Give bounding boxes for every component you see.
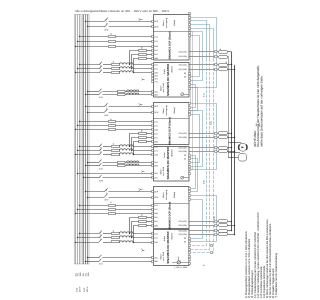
svg-text:3.3): 3.3) <box>203 180 206 184</box>
svg-text:1W1: 1W1 <box>154 45 158 48</box>
field contactor pair3 <box>99 255 101 262</box>
field fuses pair1 <box>118 90 126 95</box>
main contactor pair3 3-pole <box>99 231 102 242</box>
fan fuse group pair1 3x <box>139 49 147 59</box>
control link U4-U5 link a <box>190 156 195 189</box>
svg-text:1K51: 1K51 <box>99 263 103 266</box>
field supply lines pair1 from bus 2 <box>85 91 152 95</box>
svg-text:1W1: 1W1 <box>154 129 158 132</box>
control link U2-U3 link b <box>191 88 198 111</box>
svg-text:1W1: 1W1 <box>154 154 158 157</box>
svg-text:Alle Leistungsanschlüsse entwe: Alle Leistungsanschlüsse entweder an 400… <box>75 9 169 13</box>
U6 right terminals <box>188 238 190 265</box>
svg-text:5W1: 5W1 <box>154 141 158 144</box>
U2 thermo symbol <box>143 78 145 80</box>
svg-text:XP1: XP1 <box>154 78 158 81</box>
U1 rotated label Stromversorgung <box>162 18 168 28</box>
svg-text:3.4): 3.4) <box>213 216 216 220</box>
U1 X21 terminal labels <box>178 51 187 59</box>
svg-text:SINAMICS DCP (Slave): SINAMICS DCP (Slave) <box>168 117 171 145</box>
fan supply taps pair1 with fuses <box>129 50 152 73</box>
U6 rotated title SINAMICS DC MASTER <box>166 231 174 264</box>
svg-text:SINAMICS DC MASTER: SINAMICS DC MASTER <box>166 146 170 179</box>
U2 armature left terminals <box>152 64 159 75</box>
svg-text:X21 (1C1): X21 (1C1) <box>178 51 187 54</box>
svg-text:1U1: 1U1 <box>154 146 157 149</box>
svg-text:1W1: 1W1 <box>154 72 158 75</box>
svg-text:1K51: 1K51 <box>99 96 103 99</box>
svg-text:30: 30 <box>184 72 186 75</box>
U6 X21 terminal labels <box>178 229 187 236</box>
U4 rotated section labels <box>160 152 166 176</box>
svg-text:(Slave): (Slave) <box>171 233 174 240</box>
svg-text:5V1: 5V1 <box>154 136 157 139</box>
U4 DC output lines 1C1 1D1 with fuses <box>189 147 236 153</box>
gray link U1-U3 terminal 1 <box>190 14 192 104</box>
svg-text:X21 (1D1): X21 (1D1) <box>178 55 187 58</box>
U5 rotated label Stromversorgung <box>162 190 168 200</box>
svg-text:DCN: DCN <box>154 196 159 199</box>
contactor 50 2-pole <box>105 18 108 27</box>
svg-text:3 AC: 3 AC <box>83 287 86 292</box>
svg-text:1V1: 1V1 <box>154 237 157 240</box>
field choke pair1 <box>127 90 139 95</box>
svg-text:5V1: 5V1 <box>154 53 157 56</box>
svg-text:1K51: 1K51 <box>99 167 103 170</box>
svg-text:5N1: 5N1 <box>154 172 157 175</box>
control link U3-U4 serial link b <box>190 111 202 167</box>
svg-text:5U1: 5U1 <box>154 49 157 52</box>
control link U2-U3 link a <box>191 85 196 108</box>
svg-text:1W1: 1W1 <box>154 241 158 244</box>
control link U5-U6 serial link b <box>190 200 202 239</box>
U1 fan left terminals <box>152 49 159 60</box>
U5 DC output lines 1C1 1D1 with fuses <box>189 220 236 227</box>
motor field winding <box>228 154 246 162</box>
converter module U2: SINAMICS DC MASTER (Slave) <box>154 63 190 98</box>
fan supply taps pair3 with fuses <box>129 217 152 243</box>
svg-text:X21 (1C1): X21 (1C1) <box>178 146 187 149</box>
connector symbols at control link ends near U6 <box>210 245 212 254</box>
svg-text:X21 (1D1): X21 (1D1) <box>178 136 187 139</box>
U3 top left terminals <box>152 105 159 114</box>
fan supply taps pair2 with fuses <box>129 133 152 155</box>
fuse group F1 3x <box>109 35 116 47</box>
control link X177 parallel bus 2 <box>190 59 209 250</box>
control link X177 parallel bus 1 <box>190 59 206 246</box>
main contactor pair1 3-pole <box>99 62 102 73</box>
svg-text:XS1: XS1 <box>154 75 158 78</box>
converter module U1: SINAMICS DCP (Slave) <box>154 15 190 61</box>
U2 exciter circle bottom-right <box>181 93 189 96</box>
wire pair 50 electronics supply from bus 2 <box>85 21 152 27</box>
svg-text:400 V: 400 V <box>86 286 89 292</box>
fused supply lines F3 from bus 1 <box>75 205 152 214</box>
svg-text:X21 (1C1): X21 (1C1) <box>178 132 187 135</box>
control link U3-U4 serial link c <box>190 115 199 163</box>
svg-text:(Slave): (Slave) <box>171 66 174 73</box>
svg-text:1U1: 1U1 <box>154 233 157 236</box>
U1 internal divider <box>153 31 189 33</box>
U3 X21 terminal labels <box>178 132 187 139</box>
field contactor pair1 <box>99 89 101 95</box>
svg-text:1V1: 1V1 <box>154 125 157 128</box>
armature supply lines pair2 with contactor fuse and line reactor <box>75 146 152 155</box>
connector symbols on DC output lines <box>214 51 217 236</box>
svg-text:vers. Feld: vers. Feld <box>162 84 165 93</box>
svg-text:1W1: 1W1 <box>154 212 158 215</box>
control link X177 parallel bus 3 <box>190 59 213 253</box>
svg-text:SINAMICS DCP (Slave): SINAMICS DCP (Slave) <box>168 202 171 230</box>
auxiliary switched line to master converter <box>83 175 152 178</box>
converter module U4: SINAMICS DC MASTER (Master) <box>153 147 189 182</box>
control link X177 parallel bus 1 head <box>191 21 207 59</box>
svg-text:Strom-: Strom- <box>160 168 163 174</box>
U4 armature left terminals <box>151 146 158 157</box>
armature fuse group pair2 3x <box>111 145 119 155</box>
bus 2 phase labels 1U1 1V1 1W1 <box>82 271 90 276</box>
U4 thermo symbol <box>142 170 144 172</box>
field supply lines pair2 from bus 2 <box>85 162 152 166</box>
line reactor pair1 3x choke <box>120 63 134 73</box>
svg-text:3W1: 3W1 <box>154 260 158 263</box>
U1 mid left terminals <box>152 35 159 48</box>
svg-text:DCN: DCN <box>154 111 159 114</box>
U6 rotated section labels <box>160 236 166 261</box>
svg-text:DCN: DCN <box>154 26 159 29</box>
U5 thermo symbol <box>140 188 142 190</box>
svg-text:(Slave): (Slave) <box>173 20 176 27</box>
svg-text:X21 (1D1): X21 (1D1) <box>178 68 187 71</box>
U5 rotated title SINAMICS DCP <box>168 192 176 230</box>
control link X177 parallel bus 2 head <box>191 25 210 59</box>
U3 thermo symbol <box>141 103 143 105</box>
U4 field left terminals <box>151 161 158 168</box>
contactor 54 2-pole <box>104 188 107 197</box>
U2 rotated section labels <box>160 69 166 93</box>
wire pair 54 electronics supply from bus 2 <box>85 191 152 198</box>
svg-text:vers. Feld: vers. Feld <box>162 167 165 176</box>
U2 X21 terminal labels <box>178 64 187 71</box>
svg-text:XT1: XT1 <box>154 81 157 84</box>
svg-text:vers. Feld: vers. Feld <box>162 252 165 261</box>
bottom exciter circle symbol <box>172 257 189 264</box>
bus 1 phase labels 1U1 1V1 1W1 <box>74 271 82 276</box>
svg-text:(Master): (Master) <box>171 149 174 157</box>
svg-text:versorgung: versorgung <box>165 18 168 28</box>
wire DC bus to motor armature bottom <box>228 152 240 153</box>
control link U1-U2 serial link b <box>191 32 203 81</box>
control link U4-U5 link b <box>190 159 197 192</box>
svg-text:1U1: 1U1 <box>154 121 157 124</box>
svg-text:5W1: 5W1 <box>154 224 158 227</box>
svg-text:SINAMICS DC MASTER: SINAMICS DC MASTER <box>166 231 170 264</box>
ACHTUNG warning note rotated <box>253 65 263 146</box>
svg-text:5U1: 5U1 <box>154 216 157 219</box>
control link U1-U2 serial link a <box>191 18 217 88</box>
svg-text:SINAMICS DC MASTER: SINAMICS DC MASTER <box>166 63 170 96</box>
converter module U6: SINAMICS DC MASTER (Slave) <box>153 230 189 266</box>
svg-text:3 AC: 3 AC <box>75 287 78 292</box>
fused supply lines F1 from bus 1 <box>75 36 152 47</box>
control link U5-U6 serial link a <box>190 196 216 242</box>
svg-text:SINAMICS DCP (Slave): SINAMICS DCP (Slave) <box>168 31 171 59</box>
U4 terminals 30 35 <box>184 154 186 161</box>
U3 rotated label Stromversorgung <box>162 105 168 115</box>
U2 terminals 30 35 <box>184 72 186 79</box>
fan fuse group pair2 3x <box>139 132 147 142</box>
svg-text:30: 30 <box>184 237 186 240</box>
svg-text:1V1: 1V1 <box>154 208 157 211</box>
supply bus group 1 enclosure <box>74 14 81 264</box>
motor M armature circle <box>239 143 248 151</box>
U5 mid left terminals <box>151 204 158 215</box>
fused supply lines F2 from bus 1 <box>75 121 152 130</box>
svg-text:400 V: 400 V <box>78 286 81 292</box>
DC bus bar 1D1 vertical <box>233 65 235 234</box>
wire DC bus to motor armature top <box>228 142 241 144</box>
U5 internal divider <box>153 203 189 205</box>
U6 armature left terminals <box>151 233 158 244</box>
U1 DC output lines 1C1 1D1 with fuses <box>189 51 232 59</box>
fuse group F2 3x <box>109 120 116 130</box>
svg-text:Strom-: Strom- <box>162 192 165 198</box>
U2 aux left terminals <box>152 75 158 84</box>
U4 right terminals <box>188 155 190 175</box>
U3 internal divider <box>153 118 189 120</box>
U6 field left terminals <box>151 256 158 263</box>
field contactor pair2 <box>99 159 101 166</box>
U5 X21 terminal labels <box>178 220 187 227</box>
U5 fan left terminals <box>151 216 158 227</box>
supply bus group 2 enclosure <box>82 14 89 264</box>
fan fuse group pair3 3x <box>138 216 146 226</box>
svg-text:1U1: 1U1 <box>154 64 157 67</box>
U5 right terminals <box>188 188 190 201</box>
U3 fan left terminals <box>152 132 159 143</box>
svg-text:siehe dazu Dokumentation auf d: siehe dazu Dokumentation auf der vorheri… <box>259 75 263 147</box>
svg-text:3U1: 3U1 <box>154 90 157 93</box>
U3 DC output lines 1C1 1D1 with fuses <box>189 132 236 139</box>
U6 DC output lines 1C1 1D1 with fuses <box>189 230 236 236</box>
field choke pair2 <box>126 161 138 166</box>
svg-text:1K50: 1K50 <box>104 199 108 202</box>
svg-text:X21 (1D1): X21 (1D1) <box>178 233 187 236</box>
U4 exciter circle bottom-right <box>181 176 189 179</box>
armature fuse group pair3 3x <box>111 232 119 242</box>
svg-text:5V1: 5V1 <box>154 220 157 223</box>
svg-text:5W1: 5W1 <box>154 57 158 60</box>
U4 aux left terminals <box>151 172 157 180</box>
armature supply lines pair1 with contactor fuse and line reactor <box>75 64 152 73</box>
bus 1 supply label 3AC 400V <box>75 286 81 292</box>
U3 mid left terminals <box>152 121 159 132</box>
DC bus bar 1C1 vertical <box>230 52 232 231</box>
svg-text:versorgung: versorgung <box>165 105 168 115</box>
svg-text:3.1): 3.1) <box>203 93 206 97</box>
U2 field left terminals <box>152 90 159 96</box>
U1 right terminals <box>189 13 191 37</box>
U2 right terminals <box>189 73 191 90</box>
U5 top left terminals <box>151 190 158 198</box>
main contactor pair2 3-pole <box>99 144 102 155</box>
U1 rotated title SINAMICS DCP <box>168 20 176 60</box>
svg-text:3U1: 3U1 <box>154 256 157 259</box>
svg-text:2K50: 2K50 <box>99 179 103 182</box>
U2 DC output lines 1C1 1D1 with fuses <box>189 64 236 71</box>
svg-text:5U1: 5U1 <box>154 177 157 180</box>
svg-text:1V1: 1V1 <box>154 150 157 153</box>
svg-text:versorgung: versorgung <box>165 190 168 200</box>
converter module U3: SINAMICS DCP (Slave) <box>154 103 190 145</box>
svg-text:35: 35 <box>184 76 186 79</box>
svg-text:5U1: 5U1 <box>154 132 157 135</box>
svg-text:Strom-: Strom- <box>160 85 163 91</box>
svg-text:X21 (1C1): X21 (1C1) <box>178 229 187 232</box>
svg-text:1V1: 1V1 <box>154 40 157 43</box>
contactor 52 2-pole <box>105 103 108 112</box>
gray link U1-U5 <box>190 32 192 170</box>
U4 rotated title SINAMICS DC MASTER <box>166 146 174 179</box>
wire pair 52 electronics supply from bus 2 <box>85 106 152 113</box>
armature fuse group pair1 3x <box>112 63 120 73</box>
svg-text:1_R50_N_0806: 1_R50_N_0806 <box>174 266 187 269</box>
svg-text:X21 (1C1): X21 (1C1) <box>178 64 187 67</box>
U1 thermo symbol <box>141 18 143 20</box>
svg-text:Strom-: Strom- <box>162 107 165 113</box>
svg-text:30: 30 <box>184 154 186 157</box>
svg-text:7) Feldumkehr nur mit Feldum: 7) Feldumkehr nur mit Feldumschaltung <box>275 252 278 298</box>
U6 thermo symbol <box>142 249 144 251</box>
svg-text:(Slave): (Slave) <box>173 192 176 199</box>
svg-text:1K50: 1K50 <box>104 28 108 31</box>
control link U3-U4 serial link a <box>190 104 216 170</box>
control link U1-U2 serial link c <box>191 36 200 77</box>
field fuses pair2 <box>117 161 125 166</box>
supply bus group 2 lines L1 L2 L3 <box>83 14 87 264</box>
svg-text:(Slave): (Slave) <box>173 107 176 114</box>
U6 terminals 30 35 <box>184 237 186 244</box>
svg-text:1V1: 1V1 <box>154 68 157 71</box>
svg-text:35: 35 <box>184 158 186 161</box>
svg-text:Strom-: Strom- <box>160 253 163 259</box>
field supply lines pair3 from bus 2 <box>85 257 152 262</box>
svg-text:3U1: 3U1 <box>154 161 157 164</box>
svg-text:3.2): 3.2) <box>209 121 212 125</box>
svg-text:35: 35 <box>184 241 186 244</box>
supply bus group 1 lines L1 L2 L3 <box>75 14 79 264</box>
svg-text:1K50: 1K50 <box>104 114 108 117</box>
svg-text:X21 (1D1): X21 (1D1) <box>178 224 187 227</box>
armature supply lines pair3 with contactor fuse and line reactor <box>75 233 152 243</box>
svg-text:Strom-: Strom- <box>162 20 165 26</box>
control link X177 parallel bus 3 head <box>191 29 214 59</box>
U4 X21 terminal labels <box>178 146 187 153</box>
motor designation labels rotated <box>255 121 261 126</box>
U2 rotated title SINAMICS DC MASTER <box>166 63 174 96</box>
svg-text:1U1: 1U1 <box>154 35 157 38</box>
U1 top left terminals <box>152 20 159 29</box>
U3 right terminals <box>189 103 191 116</box>
footnote list rotated <box>245 212 278 298</box>
DC bus auxiliary gray vertical <box>227 56 229 157</box>
bus 2 supply label 3AC 400V <box>83 286 89 292</box>
svg-text:3W1: 3W1 <box>154 165 158 168</box>
svg-text:X21 (1D1): X21 (1D1) <box>178 150 187 153</box>
svg-text:X21 (1C1): X21 (1C1) <box>178 220 187 223</box>
converter module U5: SINAMICS DCP (Slave) <box>153 187 189 229</box>
fuse group F3 3x <box>108 204 115 214</box>
line reactor pair2 3x choke <box>119 145 133 155</box>
svg-text:1U1: 1U1 <box>154 204 157 207</box>
U3 rotated title SINAMICS DCP <box>168 107 176 145</box>
svg-text:3W1: 3W1 <box>154 93 158 96</box>
auxiliary line to master converter <box>77 172 151 174</box>
line reactor pair3 3x choke <box>119 232 133 243</box>
